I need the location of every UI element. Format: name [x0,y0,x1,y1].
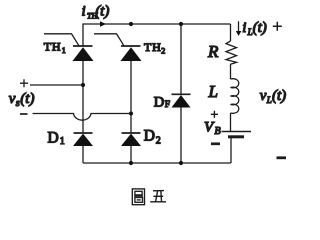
wire TH1 anode down to D1 cathode (left rail) [82,61,84,133]
label v_s(t) [9,91,35,109]
svg-text:v: v [260,88,267,104]
minus sign battery [211,142,220,145]
label v_L(t) [260,88,286,105]
wire battery to bottom rail [230,137,232,163]
svg-text:TH: TH [144,40,162,54]
wire vs plus lead [30,84,83,86]
svg-text:D: D [154,94,164,110]
arrow i_L down [236,21,242,36]
minus sign bottom right (v_L polarity) [277,156,287,159]
wire between R and L [230,64,232,79]
svg-text:2: 2 [161,47,165,56]
label D2 [144,128,161,147]
plus sign vs [20,79,28,87]
svg-text:1: 1 [62,46,66,55]
svg-text:(t): (t) [20,91,34,107]
battery VB plates [222,132,252,137]
wire bottom rail [83,162,231,164]
arrowhead i_TH on top rail [100,21,106,26]
label D1 [48,130,65,148]
node dot bottom of D2 leg [129,161,133,165]
svg-text:TH: TH [44,39,62,53]
diode D1 [73,133,93,146]
label DF [154,94,170,110]
svg-text:V: V [204,120,215,136]
inductor L [231,79,239,114]
label R [207,42,219,61]
svg-text:2: 2 [156,136,161,147]
wire TH2 anode down through vs- node to D2 cathode [130,61,132,133]
node dot vs+ junction [81,83,85,87]
wire vs minus lead with hop over left rail [33,114,132,121]
plus sign top right [273,22,282,31]
node dot top of TH2 leg [129,22,133,26]
label L [208,82,218,101]
svg-text:L: L [208,82,218,101]
svg-text:i: i [82,4,86,20]
wire between L and battery [230,113,232,132]
svg-text:v: v [9,91,16,107]
svg-text:(t): (t) [272,88,286,104]
minus sign vs [20,113,28,115]
thyristor TH1 [44,34,94,61]
svg-text:s: s [16,98,20,109]
label V_B [204,120,221,138]
thyristor TH2 [94,34,142,61]
svg-text:L: L [266,95,272,105]
resistor R [226,41,237,64]
diode DF freewheeling [172,94,191,107]
caption character 圖 [132,189,144,205]
svg-text:i: i [242,20,246,36]
svg-text:D: D [48,130,59,147]
caption character 五 [150,191,166,202]
label i_TH(t) [82,4,110,21]
svg-text:(t): (t) [253,20,267,36]
wire D1 anode to bottom rail [82,146,84,163]
svg-text:(t): (t) [95,4,109,20]
svg-text:R: R [207,42,219,61]
node dot top of DF leg [179,22,183,26]
node dot bottom of DF leg [179,161,183,165]
wire D2 anode to bottom rail [130,146,132,163]
diode D2 [121,133,141,146]
wire load branch corner down to resistor [230,24,232,41]
node dot vs- junction on TH2 leg [129,111,133,115]
label i_L(t) [242,20,266,37]
svg-text:F: F [165,100,170,110]
label TH2 [144,40,165,56]
svg-text:B: B [215,126,221,137]
label TH1 [44,39,66,55]
svg-text:1: 1 [60,136,65,147]
svg-text:D: D [144,128,155,145]
plus sign battery [211,111,218,118]
wire DF cathode lead from top rail [180,24,182,94]
wire DF anode to bottom rail [180,108,182,164]
wire top rail from TH1 to load corner [83,24,231,46]
